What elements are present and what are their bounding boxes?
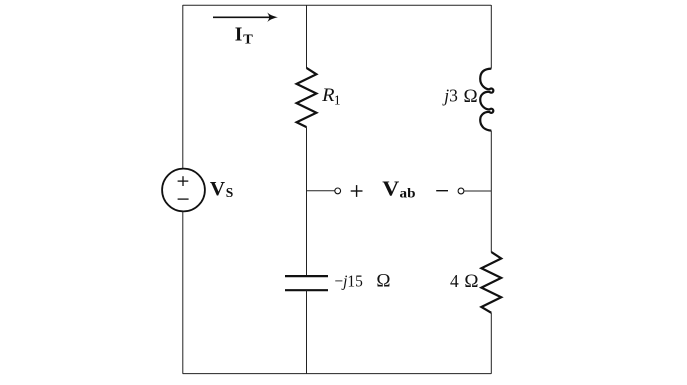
terminal node a <box>335 188 341 194</box>
svg-text:j3: j3 <box>442 86 458 106</box>
voltage source VS circle <box>162 169 205 212</box>
wire top (middle junction to right corner) <box>306 4 491 6</box>
svg-text:Ω: Ω <box>376 271 390 292</box>
wire left upper (top corner to source) <box>182 5 184 169</box>
current arrow IT <box>213 12 278 22</box>
svg-text:V: V <box>382 177 400 201</box>
wire bottom (middle junction to right corner) <box>306 373 491 375</box>
inductor j3 coil <box>480 69 493 131</box>
svg-text:T: T <box>243 33 253 48</box>
wire right middle (inductor to resistor) <box>490 131 492 252</box>
wire right lower (resistor to bottom corner) <box>490 313 492 374</box>
svg-text:V: V <box>210 178 226 200</box>
wire middle upper (top junction to R1) <box>306 5 308 68</box>
plus sign of Vab <box>351 185 363 197</box>
source minus sign <box>178 198 189 200</box>
svg-text:4: 4 <box>450 271 459 291</box>
wire top (left corner to middle junction) <box>183 4 307 6</box>
minus sign of Vab <box>436 190 448 192</box>
wire bottom (left corner to middle junction) <box>183 373 307 375</box>
svg-text:−j15: −j15 <box>334 272 362 291</box>
wire stub to terminal a <box>307 190 335 192</box>
resistor R1 zigzag <box>297 68 317 127</box>
svg-text:Ω: Ω <box>464 86 478 107</box>
wire middle lower (capacitor to bottom junction) <box>306 290 308 374</box>
svg-text:Ω: Ω <box>464 271 478 292</box>
svg-text:ab: ab <box>400 185 416 200</box>
capacitor top plate <box>285 275 328 277</box>
wire stub from terminal b to right branch <box>464 190 491 192</box>
capacitor bottom plate <box>285 289 328 291</box>
wire right upper (top corner to inductor) <box>490 5 492 69</box>
wire left lower (source to bottom corner) <box>182 211 184 373</box>
resistor 4 ohm zigzag <box>481 252 501 313</box>
terminal node b <box>458 188 464 194</box>
svg-text:S: S <box>226 185 234 200</box>
svg-text:1: 1 <box>334 92 341 107</box>
svg-text:I: I <box>235 25 243 46</box>
wire middle (R1 to capacitor) <box>306 127 308 276</box>
source plus sign <box>178 176 189 186</box>
